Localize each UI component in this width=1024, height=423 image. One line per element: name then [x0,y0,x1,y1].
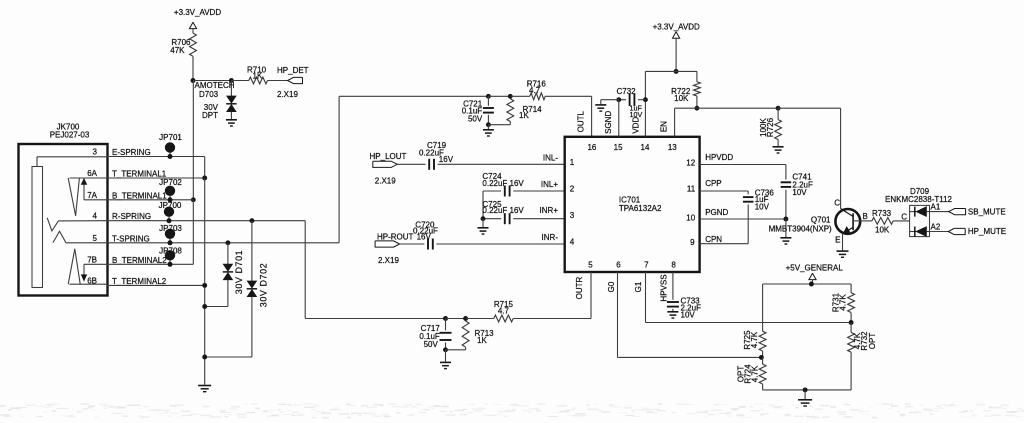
svg-text:3: 3 [570,211,575,220]
svg-text:50V: 50V [468,114,483,123]
svg-text:PGND: PGND [705,208,728,217]
svg-text:B_TERMINAL2: B_TERMINAL2 [112,256,167,265]
power +3.3V_AVDD (right) [653,22,700,71]
svg-text:16V: 16V [439,155,454,164]
svg-text:SB_MUTE: SB_MUTE [968,207,1006,216]
wire R-SPRING riser to OUTR net [305,221,445,319]
svg-text:10V: 10V [681,311,696,320]
ground (R726) [773,147,784,153]
node junction R722/EN [694,106,699,111]
svg-text:4.7K: 4.7K [838,294,847,311]
svg-text:4.7K: 4.7K [750,365,759,382]
connector spring contacts [47,178,107,284]
resistor R726 [759,108,782,146]
svg-text:OPT: OPT [868,333,877,350]
terminal HP_LOUT [370,152,407,186]
node junction C721 [486,94,491,99]
svg-text:A2: A2 [931,222,941,231]
wire T-SPRING riser to OUTL net [339,96,488,243]
wire to INL- pin 1 [438,163,565,165]
terminal HP_MUTE [948,227,1006,236]
svg-text:OUTL: OUTL [576,110,585,132]
svg-text:HPVSS: HPVSS [660,274,669,301]
svg-text:JP701: JP701 [159,133,182,142]
wire A1 [930,202,949,211]
wire [446,318,466,320]
svg-text:1: 1 [570,158,575,167]
svg-text:4.7K: 4.7K [750,331,759,348]
wire PGND pin 10 [700,208,786,219]
svg-text:ENKMC2838-T112: ENKMC2838-T112 [885,195,953,204]
svg-text:C732: C732 [617,87,637,96]
wire emitter [842,234,844,251]
power +5V_GENERAL [786,264,844,285]
wire G1 pin 7 [646,272,852,323]
svg-text:2.X19: 2.X19 [378,256,399,265]
svg-text:10: 10 [686,213,695,222]
wire E-SPRING [107,157,205,179]
svg-text:10V: 10V [630,110,643,119]
ground (C733) [667,312,678,318]
pin label HPVSS [660,274,669,301]
svg-text:G1: G1 [634,281,643,292]
resistor R733 [860,209,893,235]
svg-text:6A: 6A [87,169,97,178]
resistor R706 [170,33,196,56]
resistor R713 [446,321,495,350]
svg-text:R733: R733 [872,209,892,218]
svg-text:4.7: 4.7 [529,86,541,95]
svg-text:8: 8 [671,261,676,270]
svg-text:+3.3V_AVDD: +3.3V_AVDD [174,8,221,17]
IC701 pin numbers right [686,159,695,248]
capacitor C732 [617,87,646,119]
ground (C717) [440,350,451,369]
svg-text:2.X19: 2.X19 [375,177,396,186]
svg-text:+5V_GENERAL: +5V_GENERAL [786,264,844,273]
wire to Q701 collector [778,108,841,208]
pin label INR+ [540,206,559,215]
svg-text:EN: EN [660,121,669,132]
svg-text:10V: 10V [792,188,807,197]
svg-text:JP702: JP702 [159,178,182,187]
diode D709 ENKMC2838-T112 [885,187,953,237]
svg-text:D703: D703 [199,90,219,99]
svg-text:C: C [834,199,840,208]
svg-text:INR+: INR+ [540,206,559,215]
connector pin numbers [87,148,97,286]
svg-text:4.7: 4.7 [498,306,510,315]
wire B_TERMINAL2 [107,263,170,265]
svg-text:INR-: INR- [542,233,559,242]
wire [510,95,530,97]
wire T_TERMINAL1 [107,177,205,179]
node junction R713 top [463,316,468,321]
svg-text:7A: 7A [87,191,97,200]
node junction C721/R714 bottom [486,122,491,127]
node junction R726 [776,106,781,111]
pin label B_TERMINAL1 [112,191,167,200]
svg-text:HP_MUTE: HP_MUTE [968,227,1006,236]
svg-text:1K: 1K [253,71,263,80]
svg-text:10V: 10V [755,202,770,211]
resistor R710 [231,66,267,84]
node junction VDD/C732 [643,97,648,102]
terminal HP_DET [277,66,309,99]
resistor R731 [832,284,855,323]
svg-text:10K: 10K [875,226,890,235]
svg-text:14: 14 [641,143,650,152]
resistor R722 [671,82,700,108]
capacitor C724 [482,172,564,196]
svg-text:AMOTECH: AMOTECH [195,81,235,90]
wire OUTR to pin 5 [513,272,591,319]
jumper JP700 [159,201,182,223]
node junction D702/R-SPRING [249,218,254,223]
svg-text:3: 3 [93,148,98,157]
svg-text:E-SPRING: E-SPRING [112,148,151,157]
wire T-SPRING [107,242,339,244]
svg-text:R726: R726 [766,117,775,137]
node junction T_TERMINAL1/bus [202,176,207,181]
pin label T_TERMINAL2 [112,277,167,286]
wire C724/C725 riser [482,191,484,219]
svg-text:15: 15 [614,143,623,152]
pin label OUTR [575,276,584,299]
capacitor C736 [743,188,774,243]
svg-text:16: 16 [587,143,596,152]
terminal HP-ROUT [375,233,413,265]
pin label EN [660,121,669,132]
resistor R732 (OPT) [848,323,877,390]
node junction D701/bus [202,304,207,309]
wire R-SPRING [107,220,305,222]
svg-text:HP-ROUT: HP-ROUT [377,233,414,242]
svg-text:A1: A1 [931,202,941,211]
svg-text:6: 6 [616,261,621,270]
svg-text:CPN: CPN [705,235,722,244]
node junction G0/R725/R724 [759,355,764,360]
svg-text:Q701: Q701 [811,216,831,225]
wire [601,100,619,105]
svg-text:5: 5 [93,234,98,243]
svg-text:+3.3V_AVDD: +3.3V_AVDD [653,22,700,31]
svg-text:9: 9 [690,238,695,247]
diode D701 (30V TVS) [205,243,244,307]
pin label T-SPRING [112,234,150,243]
svg-text:50V: 50V [424,340,439,349]
transistor Q701 [769,199,868,245]
wire [170,200,193,264]
wire [192,56,194,80]
pin label OUTL [576,110,585,132]
svg-text:0.22uF 16V: 0.22uF 16V [482,179,524,188]
pin label B_TERMINAL2 [112,256,167,265]
capacitor C717 [419,319,451,350]
node junction B_TERMINAL1 [191,197,196,202]
svg-text:MMBT3904(NXP): MMBT3904(NXP) [769,224,832,233]
wire ground bus [204,178,206,385]
node junction R714 top [508,94,513,99]
jumper JP702 [159,178,182,202]
svg-text:11: 11 [687,185,696,194]
wire [193,80,231,82]
ground (+5V ladder) [798,390,812,406]
pin label T_TERMINAL1 [112,170,167,179]
svg-text:OUTR: OUTR [575,276,584,299]
IC701 pin numbers bottom [588,261,676,270]
svg-text:JP700: JP700 [159,201,182,210]
pin label SGND [604,111,613,134]
wire [466,318,494,320]
jumper JP701 [159,133,182,159]
jumper JP708 [159,247,182,267]
ground (D703) [226,112,237,126]
ground (SGND) [595,105,606,111]
ground (C721) [483,125,494,136]
svg-text:T-SPRING: T-SPRING [112,234,150,243]
svg-text:E: E [835,236,840,245]
svg-text:DPT: DPT [202,111,218,120]
node junction rail/ground [803,387,808,392]
svg-text:30V D702: 30V D702 [259,263,269,307]
pin label VDD [632,117,641,134]
svg-text:INL+: INL+ [541,180,558,189]
wire A2 [930,222,949,231]
op-amp IC701 TPA6132A2 body [565,137,700,272]
diode D703 (30V TVS) [195,81,237,121]
IC701 pin numbers top [587,143,677,152]
wire B_TERMINAL1 [107,199,193,201]
node junction SGND/C732 [616,97,621,102]
svg-text:B: B [863,212,868,221]
svg-text:30V D701: 30V D701 [234,250,244,294]
svg-text:JP708: JP708 [159,247,182,256]
svg-text:47K: 47K [170,46,185,55]
wire bottom rail [763,389,852,391]
node junction D701/T-SPRING [225,240,230,245]
resistor R714 [488,99,542,125]
wire HPVDD pin 12 [700,153,786,179]
connector JK700 outline [19,123,108,296]
wire [676,71,697,81]
svg-text:4: 4 [93,212,98,221]
pin label G0 [607,281,616,292]
svg-text:PEJ027-03: PEJ027-03 [50,131,90,140]
IC701 pin numbers left [570,158,575,246]
wire G0 pin 6 [618,272,762,357]
svg-text:INL-: INL- [543,153,558,162]
pin label INL- [543,153,558,162]
wire to INR- pin 4 [436,243,564,245]
wire SGND riser [618,100,620,137]
svg-text:2: 2 [570,185,575,194]
svg-text:B_TERMINAL1: B_TERMINAL1 [112,191,167,200]
svg-text:TPA6132A2: TPA6132A2 [619,204,662,213]
svg-text:13: 13 [668,143,677,152]
svg-text:CPP: CPP [705,179,721,188]
pin label INL+ [541,180,558,189]
wire [268,80,288,82]
wire EN riser [675,108,697,137]
capacitor C741 [781,173,813,219]
svg-text:SGND: SGND [604,111,613,134]
jumper JP703 [159,224,182,245]
resistor R725 [743,284,766,357]
node junction D703/R710 [229,78,234,83]
terminal SB_MUTE [949,207,1006,216]
node junction T_TERMINAL2/bus [202,283,207,288]
svg-text:HP_DET: HP_DET [277,66,309,75]
svg-text:HP_LOUT: HP_LOUT [370,152,407,161]
svg-text:4: 4 [570,238,575,247]
ground (Q701 emitter) [837,251,849,257]
wire (page artifact strip) [0,403,1024,419]
pin label E-SPRING [112,148,151,157]
wire [893,213,909,222]
resistor R716 [527,79,547,99]
svg-text:2.X19: 2.X19 [277,90,298,99]
resistor R724 (OPT) [737,357,767,390]
svg-text:1K: 1K [477,336,487,345]
ground (jack bus) [198,386,211,392]
node junction PGND/C741 [783,217,788,222]
svg-text:7B: 7B [87,255,97,264]
node junction +3.3V [674,69,679,74]
node junction D702/bus [202,355,207,360]
svg-text:HPVDD: HPVDD [705,153,733,162]
ground (C724/C725) [478,219,489,234]
wire CPN pin 9 [700,235,749,244]
capacitor C721 [462,96,494,124]
capacitor C720 [413,220,438,249]
power +3.3V_AVDD (left) [174,8,221,33]
capacitor C725 [482,200,564,224]
wire +5V rail [763,283,852,285]
svg-text:5: 5 [588,261,593,270]
wire [400,243,425,245]
node junction +5V [809,282,814,287]
svg-text:7: 7 [644,261,649,270]
wire (HP det net riser) [192,81,194,200]
wire OUTL to pin 16 [545,96,591,137]
node junction C717/R713 bottom [443,347,448,352]
capacitor C719 [419,141,454,170]
svg-text:0.22uF 16V: 0.22uF 16V [482,206,524,215]
resistor R715 [494,300,514,322]
svg-text:C: C [901,213,907,222]
node junction C717 [443,316,448,321]
connector sleeve contact [32,157,107,288]
pin label INR- [542,233,559,242]
wire [397,163,425,165]
wire CPP pin 11 [700,179,749,194]
node junction C725/ground [481,216,486,221]
svg-text:R-SPRING: R-SPRING [112,212,151,221]
svg-text:G0: G0 [607,281,616,292]
svg-text:12: 12 [686,159,695,168]
wire T_TERMINAL2 [107,284,205,286]
node junction G1/R731/R732 [849,320,854,325]
wire [697,107,778,109]
wire [488,95,510,97]
wire VDD riser [645,71,676,136]
svg-text:T_TERMINAL2: T_TERMINAL2 [112,277,167,286]
diode D702 (30V TVS) [205,221,269,357]
node junction R706/D703 [191,78,196,83]
ground (PGND) [780,219,791,244]
svg-text:JP703: JP703 [159,224,182,233]
svg-text:16V: 16V [417,233,432,242]
pin label R-SPRING [112,212,151,221]
svg-text:1K: 1K [519,111,529,120]
svg-text:10K: 10K [674,94,689,103]
capacitor C733 [667,272,701,320]
pin label G1 [634,281,643,292]
svg-text:6B: 6B [87,276,97,285]
